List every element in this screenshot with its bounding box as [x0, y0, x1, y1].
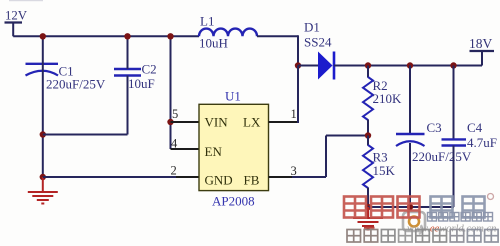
junction dot R3 bottom	[365, 204, 371, 210]
junction dot C2 top	[124, 33, 130, 39]
wire node to diode anode	[298, 65, 319, 67]
wire GND pin2	[43, 164, 199, 178]
wire left rail (C1 leads)	[42, 36, 44, 177]
capacitor C2	[114, 62, 157, 92]
svg-text:12V: 12V	[5, 9, 28, 23]
svg-text:10uF: 10uF	[128, 76, 155, 91]
capacitor C1	[26, 64, 106, 92]
ground (left)	[28, 177, 58, 204]
svg-text:3: 3	[291, 164, 297, 178]
junction dot pin5	[167, 119, 173, 125]
watermark text dianzi gongcheng shijie (grey-blue pseudo glyphs)	[428, 213, 493, 222]
wire VIN drop to pin5/pin4	[170, 36, 172, 149]
svg-text:GND: GND	[205, 173, 233, 188]
junction dot left rail top	[40, 33, 46, 39]
svg-text:220uF/25V: 220uF/25V	[46, 77, 106, 92]
svg-text:C3: C3	[427, 120, 442, 135]
wire VIN top rail	[13, 35, 199, 37]
svg-text:AP2008: AP2008	[212, 194, 255, 209]
svg-text:5: 5	[172, 107, 178, 121]
node LX junction dot	[295, 62, 301, 68]
svg-text:FB: FB	[244, 173, 260, 188]
resistor R2 210K	[363, 66, 402, 136]
capacitor C4	[442, 66, 497, 208]
watermark big red row (yi di tuo pei xun pseudo glyphs)	[344, 194, 494, 218]
svg-text:2: 2	[171, 164, 177, 178]
svg-text:15K: 15K	[373, 163, 396, 178]
port 18V	[469, 36, 494, 66]
svg-text:1: 1	[291, 107, 297, 121]
resistor R3 15K	[363, 136, 396, 208]
svg-text:18V: 18V	[469, 36, 493, 51]
wire bottom rail right	[368, 206, 454, 208]
pin 3 stub and FB wire	[269, 136, 369, 179]
svg-text:SS24: SS24	[304, 35, 332, 50]
svg-text:4: 4	[171, 137, 178, 151]
op-amp U1 AP2008 body	[199, 89, 269, 209]
junction dot C3 top	[407, 62, 413, 68]
pin 1 stub and LX wire	[269, 66, 299, 124]
pin 4 stub	[171, 137, 200, 151]
inductor L1	[199, 14, 257, 51]
junction dot left rail mid	[40, 131, 46, 137]
junction dot left rail gnd	[40, 174, 46, 180]
watermark text www.eeworld.com.cn	[407, 224, 496, 235]
svg-text:EN: EN	[205, 144, 223, 159]
watermark small grey row (she pin he tian xian she ji zhuan jia pseudo glyphs)	[347, 227, 498, 242]
junction dot R2 top	[365, 62, 371, 68]
ground (right)	[353, 207, 383, 230]
svg-text:L1: L1	[200, 14, 214, 29]
junction dot C3 bottom	[407, 204, 413, 210]
svg-text:U1: U1	[225, 89, 241, 104]
wire L1 to corner, down to diode node	[257, 35, 298, 65]
svg-text:C2: C2	[142, 62, 157, 77]
svg-text:C4: C4	[467, 120, 483, 135]
wire diode cathode to 18V rail	[334, 65, 482, 67]
junction dot FB node	[365, 132, 371, 138]
capacitor C3	[396, 66, 472, 208]
wire C2 bottom to left rail	[43, 76, 128, 135]
svg-text:VIN: VIN	[205, 115, 229, 130]
svg-text:10uH: 10uH	[199, 36, 228, 51]
pin 5 stub	[171, 107, 200, 122]
svg-text:LX: LX	[243, 115, 261, 130]
svg-text:220uF/25V: 220uF/25V	[412, 149, 472, 164]
diode D1 SS24	[304, 20, 334, 80]
top edge artifact	[9, 0, 43, 1]
watermark logo d	[403, 212, 425, 234]
port 12V	[5, 9, 28, 37]
wire C2 top lead	[127, 36, 129, 69]
junction dot VIN drop top	[167, 33, 173, 39]
svg-text:4.7uF: 4.7uF	[467, 135, 497, 150]
svg-text:210K: 210K	[373, 91, 403, 106]
junction dot C4 top	[450, 62, 456, 68]
svg-text:D1: D1	[304, 20, 320, 35]
